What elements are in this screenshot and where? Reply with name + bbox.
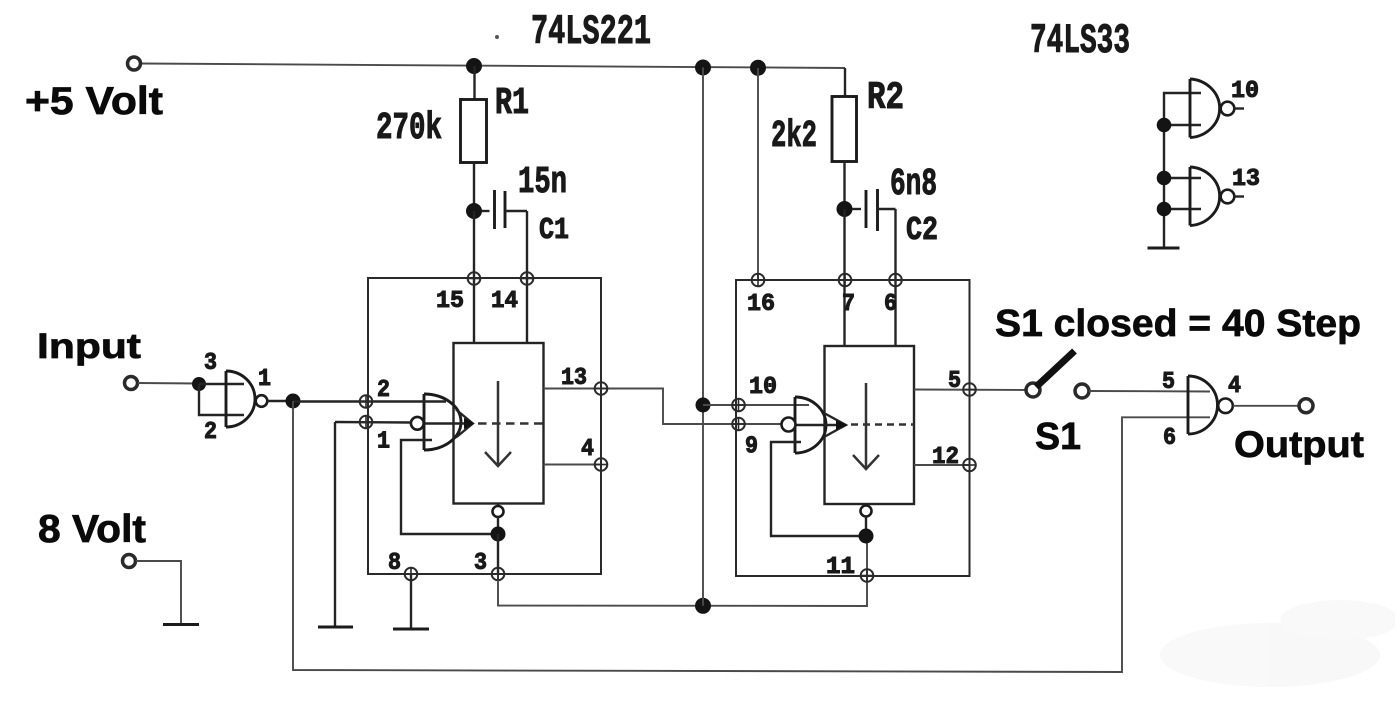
svg-text:6: 6 xyxy=(1163,425,1176,452)
wire pin3 xyxy=(497,534,499,574)
terminal Output xyxy=(1299,399,1313,413)
pin 9 xyxy=(732,418,745,431)
bubble gate U1b input A xyxy=(782,418,796,432)
svg-text:13: 13 xyxy=(561,365,587,392)
svg-text:15: 15 xyxy=(436,288,464,315)
svg-text:Input: Input xyxy=(37,327,141,366)
capacitor C2 xyxy=(852,208,861,210)
gate G1 input NAND xyxy=(225,371,228,427)
pin 14 xyxy=(521,272,534,285)
wire pin1 from ground line xyxy=(335,421,411,424)
wire G1 output xyxy=(268,400,294,402)
svg-text:270k: 270k xyxy=(376,107,442,150)
bubble G2 xyxy=(1218,399,1233,414)
wire R1 stem top xyxy=(473,66,475,100)
wire R2 bottom xyxy=(843,162,845,210)
pin 7 xyxy=(839,274,852,287)
pin 5 xyxy=(963,383,976,396)
wire +5V top rail xyxy=(141,64,845,69)
svg-text:10: 10 xyxy=(749,374,777,401)
svg-text:14: 14 xyxy=(491,288,518,315)
arrow down U1b xyxy=(853,383,879,469)
node dot B upper xyxy=(1157,171,1172,186)
pin 15 xyxy=(468,272,481,285)
wire switch to gate xyxy=(1089,390,1210,393)
dashed line U1a xyxy=(478,422,543,425)
monostable body U1a xyxy=(454,343,544,504)
wire pin12 xyxy=(914,464,970,466)
pin cross marks xyxy=(360,273,976,582)
wire gate B lower input xyxy=(1164,208,1201,210)
switch S1 throw xyxy=(1075,384,1089,398)
svg-text:2: 2 xyxy=(377,377,390,404)
pin 8 xyxy=(405,568,418,581)
switch S1 lever xyxy=(1036,351,1075,387)
wire pin14 vertical xyxy=(526,211,528,343)
svg-text:2k2: 2k2 xyxy=(771,115,817,158)
svg-text:8 Volt: 8 Volt xyxy=(38,508,146,551)
svg-text:Output: Output xyxy=(1234,424,1364,465)
node junction Qbar1 xyxy=(491,527,506,542)
terminal Input xyxy=(125,377,138,390)
wire pin10 xyxy=(703,404,809,406)
capacitor C1 xyxy=(482,210,490,212)
wire gate U1b feedback input xyxy=(771,442,860,536)
node junction top-R1 xyxy=(466,58,482,74)
node junction R2-C2 xyxy=(837,201,853,217)
wire input gate lower input xyxy=(199,384,244,415)
wire Q1 out pin13 xyxy=(544,389,782,425)
pin 1 xyxy=(360,416,373,429)
terminal +5 Volt xyxy=(128,57,141,70)
svg-text:3: 3 xyxy=(474,550,487,577)
wire pin7 vertical xyxy=(843,209,845,346)
bubble gate A xyxy=(1221,102,1235,116)
trigger gate U1a xyxy=(423,394,426,450)
svg-text:3: 3 xyxy=(204,350,217,377)
gate G2 output NAND xyxy=(1187,376,1190,434)
node junction R1-C1 xyxy=(466,203,482,219)
gate A spare NAND xyxy=(1189,79,1192,138)
ground pin8 xyxy=(393,628,429,631)
node junction x703 bottom xyxy=(695,598,711,614)
wire vertical +5 feed x703 xyxy=(702,68,704,606)
svg-text:5: 5 xyxy=(948,368,961,395)
wire gate A output stub xyxy=(1235,107,1245,109)
dashed line U1b xyxy=(851,423,914,426)
wire pin4 xyxy=(544,464,602,466)
chip box U1a xyxy=(368,278,601,574)
wire input xyxy=(138,382,199,385)
wire pin16 vertical xyxy=(757,68,759,280)
svg-text:7: 7 xyxy=(842,291,855,318)
wire pin5 xyxy=(914,389,1026,392)
switch S1 pole xyxy=(1026,383,1040,397)
wire gate B output stub xyxy=(1235,195,1245,197)
wire gate A lower input xyxy=(1164,124,1201,126)
svg-text:8: 8 xyxy=(388,550,401,577)
svg-text:C2: C2 xyxy=(906,212,938,249)
node junction top-pin16 xyxy=(750,60,766,76)
svg-text:R2: R2 xyxy=(867,76,904,120)
svg-text:S1 closed = 40 Step: S1 closed = 40 Step xyxy=(995,303,1361,345)
bubble G1 xyxy=(256,395,268,407)
wire gate U1a top input stub xyxy=(372,400,446,402)
svg-text:+5 Volt: +5 Volt xyxy=(25,80,163,123)
svg-text:4: 4 xyxy=(1228,373,1241,400)
svg-text:16: 16 xyxy=(747,291,775,318)
wire G2 output xyxy=(1233,405,1299,407)
wire pin15 vertical xyxy=(473,211,475,343)
trigger gate U1b xyxy=(794,397,797,453)
bubble Qbar2 xyxy=(861,506,872,517)
node junction pin10 tap xyxy=(696,398,711,413)
ground pin1 xyxy=(318,626,353,629)
svg-text:13: 13 xyxy=(1232,166,1260,193)
svg-text:C1: C1 xyxy=(539,213,569,248)
node junction G1 out xyxy=(286,394,301,409)
wire Qbar2 bottom xyxy=(865,504,867,506)
svg-text:R1: R1 xyxy=(495,82,529,125)
wire pin6 vertical xyxy=(894,209,896,346)
ground 8V xyxy=(163,623,199,626)
resistor R2 stem xyxy=(844,68,846,97)
svg-text:1: 1 xyxy=(377,429,390,456)
svg-text:74LS221: 74LS221 xyxy=(531,8,651,56)
monostable body U1b xyxy=(825,346,915,504)
svg-text:15n: 15n xyxy=(518,161,567,204)
svg-text:12: 12 xyxy=(932,444,959,471)
pin 13 xyxy=(595,382,608,395)
svg-text:4: 4 xyxy=(581,436,594,463)
node dot A lower xyxy=(1157,118,1172,133)
terminal 8 Volt xyxy=(123,555,136,568)
wire G1 out to bottom rail xyxy=(293,401,1210,672)
svg-text:1: 1 xyxy=(258,366,271,393)
resistor R1 xyxy=(461,100,487,163)
svg-text:2: 2 xyxy=(204,419,217,446)
wire pin2 xyxy=(293,400,372,402)
svg-text:10: 10 xyxy=(1231,78,1259,105)
chip box U1b xyxy=(736,280,970,576)
pin 10 xyxy=(732,399,745,412)
pin 6 xyxy=(889,274,902,287)
svg-text:6n8: 6n8 xyxy=(890,163,937,206)
wire 8V xyxy=(136,561,181,624)
wire Qbar1 bottom xyxy=(497,504,499,507)
bubble gate U1a input A xyxy=(411,417,424,430)
74LS33 spare input bus xyxy=(1164,93,1201,248)
pin 3 xyxy=(492,568,505,581)
node junction Qbar2 xyxy=(859,529,874,544)
ground 74LS33 xyxy=(1148,247,1180,250)
arrow down U1a xyxy=(485,381,511,466)
pin 4 xyxy=(595,458,608,471)
wire gate U1a feedback input xyxy=(401,440,492,534)
bubble gate B xyxy=(1221,190,1235,204)
svg-text:9: 9 xyxy=(745,434,758,461)
wire input gate top input xyxy=(199,383,244,385)
wire pin3 to bottom bus xyxy=(498,536,867,606)
svg-text:74LS33: 74LS33 xyxy=(1030,17,1130,65)
pin 11 xyxy=(861,569,874,582)
wire pin1 ground vertical xyxy=(334,422,336,627)
node dot B lower xyxy=(1157,202,1172,217)
pin 12 xyxy=(963,459,976,472)
bubble Qbar1 xyxy=(493,506,504,517)
svg-text:S1: S1 xyxy=(1035,416,1081,458)
wire pin8 to ground xyxy=(410,574,412,629)
node junction top-x703 xyxy=(695,60,711,76)
svg-text:5: 5 xyxy=(1162,369,1175,396)
wire gate B upper input xyxy=(1164,177,1201,179)
resistor R2 xyxy=(832,97,857,162)
node junction input xyxy=(192,377,206,391)
svg-text:6: 6 xyxy=(884,291,897,318)
pin 2 xyxy=(360,395,373,408)
wire R1 stem bottom xyxy=(473,163,475,212)
pin 16 xyxy=(752,274,765,287)
gate B spare NAND xyxy=(1189,167,1192,226)
